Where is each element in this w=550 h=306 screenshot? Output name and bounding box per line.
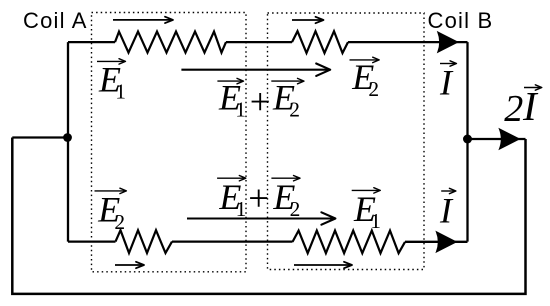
- svg-text:1: 1: [235, 98, 246, 122]
- label: current vector I (bottom branch): [441, 190, 454, 192]
- coil A top winding (zigzag): [115, 32, 226, 53]
- current arrowhead 2I on output branch: [499, 129, 519, 149]
- wire: center-left vertical connecting both branches: [67, 42, 69, 242]
- svg-text:2: 2: [368, 77, 379, 101]
- svg-text:1: 1: [115, 80, 126, 104]
- wire: top branch middle segment: [226, 41, 292, 43]
- wire: top branch right segment: [348, 41, 468, 43]
- current arrowhead I on top branch: [438, 32, 458, 52]
- svg-text:2: 2: [114, 210, 125, 234]
- coil B top winding (zigzag): [292, 31, 348, 53]
- wire: right vertical joining branches to node B: [466, 42, 468, 242]
- wire: bottom branch left segment: [68, 240, 116, 242]
- label: output current vector 2I: [524, 87, 540, 89]
- wire: left stub from outer loop to node A: [12, 136, 67, 138]
- svg-text:I: I: [439, 191, 454, 231]
- coil B bottom winding (zigzag): [293, 231, 406, 254]
- svg-text:1: 1: [370, 209, 381, 233]
- resultant emf vector arrow E1+E2 (bottom branch): [187, 217, 333, 219]
- svg-text:I: I: [522, 83, 539, 129]
- svg-text:I: I: [439, 62, 454, 102]
- node A junction dot (left): [63, 133, 72, 142]
- wire: outer return loop (right vertical, bottom, left vertical): [12, 138, 525, 294]
- label: vector sum E1+E2 (top): [217, 80, 242, 82]
- winding direction arrow above coil B top: [292, 19, 322, 21]
- wire: bottom branch right segment: [405, 241, 468, 243]
- winding direction arrow above coil A top: [113, 19, 172, 21]
- svg-text:+: +: [250, 82, 271, 123]
- svg-text:Coil B: Coil B: [428, 8, 494, 33]
- label: vector E1 (coil A top winding emf): [97, 60, 124, 62]
- current arrowhead I on bottom branch: [436, 232, 456, 252]
- node B junction dot (right): [463, 135, 472, 144]
- label: current vector I (top branch): [440, 63, 455, 65]
- label: vector E1 (coil B bottom winding emf): [352, 189, 379, 191]
- dotted boundary of coil B: [268, 13, 425, 270]
- label: vector E2 (coil B top winding emf): [350, 59, 378, 61]
- svg-text:1: 1: [236, 197, 247, 221]
- svg-text:2: 2: [289, 98, 300, 122]
- svg-text:+: +: [248, 179, 269, 220]
- svg-text:2: 2: [504, 88, 523, 130]
- svg-text:2: 2: [290, 197, 301, 221]
- dotted boundary of coil A: [92, 13, 247, 272]
- wire: output branch from node B: [468, 138, 526, 140]
- resultant emf vector arrow E1+E2 (top branch): [181, 69, 328, 71]
- wire: bottom branch middle segment: [172, 240, 293, 242]
- winding direction arrow below coil B bottom: [294, 264, 351, 266]
- svg-text:Coil A: Coil A: [23, 8, 88, 33]
- label: vector sum E1+E2 (bottom): [217, 177, 244, 179]
- winding direction arrow below coil A bottom: [115, 264, 143, 266]
- label: vector E2 (coil A bottom winding emf): [95, 190, 125, 192]
- wire: top branch left segment: [68, 41, 115, 43]
- coil A bottom winding (zigzag): [116, 230, 173, 253]
